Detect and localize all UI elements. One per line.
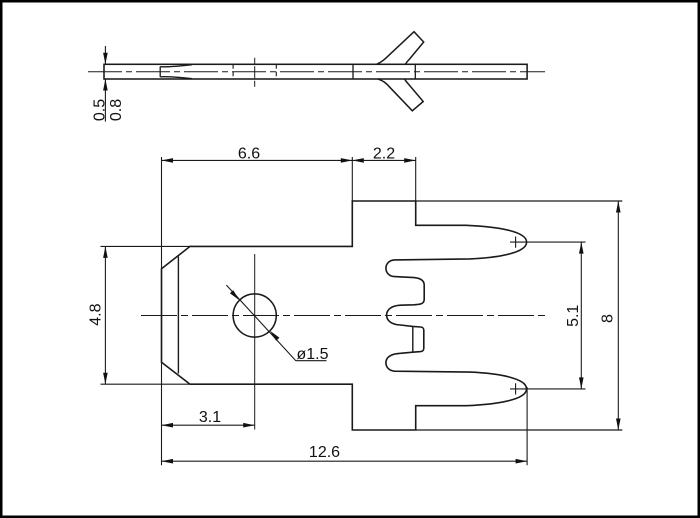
section division line B <box>414 64 416 79</box>
side view hole vertical centerline <box>254 58 256 87</box>
svg-text:ø1.5: ø1.5 <box>296 346 328 363</box>
svg-text:8: 8 <box>600 314 617 323</box>
6.6 arrows <box>162 158 174 163</box>
dimension 8 extension top <box>416 200 622 202</box>
tip coin detail vertical <box>159 67 161 78</box>
dimension 8 extension bottom <box>416 429 622 431</box>
8 arrows <box>616 201 621 213</box>
12.6 arrows <box>162 459 174 464</box>
diameter leader line <box>226 285 326 361</box>
dimension 4.8 line <box>104 246 106 384</box>
svg-text:0.8: 0.8 <box>108 99 125 121</box>
lower bent finger (side view) <box>378 79 423 111</box>
0.5/0.8 arrows <box>103 53 108 65</box>
dimension 5.1 extension bottom <box>521 388 586 390</box>
top finger tip cross <box>510 237 521 248</box>
left extension/edge vertical <box>161 157 163 465</box>
svg-text:3.1: 3.1 <box>199 409 221 426</box>
svg-text:4.8: 4.8 <box>88 303 105 325</box>
diameter leader arrows <box>230 290 241 302</box>
2.2 arrows <box>352 158 364 163</box>
section division line A <box>352 64 354 79</box>
dimension 12.6 line <box>162 460 528 462</box>
chamfer inner edge <box>177 257 179 374</box>
dimension 5.1 line <box>580 242 582 389</box>
tip coin taper lower <box>160 77 192 79</box>
hole circle <box>233 294 276 337</box>
svg-text:2.2: 2.2 <box>373 146 395 163</box>
terminal outline <box>162 201 527 430</box>
dimension 6.6 line <box>162 159 353 161</box>
plan horizontal centerline <box>141 315 546 317</box>
tip coin taper upper <box>160 65 192 67</box>
dimension 0.5/0.8 line lower segment <box>104 79 106 122</box>
dimension 4.8 extension top <box>101 245 194 247</box>
dimension 3.1 line <box>162 424 255 426</box>
upper bent finger (side view) <box>377 32 424 65</box>
side view strip body <box>104 64 527 79</box>
hole silhouette dashed right <box>275 64 277 79</box>
dimension 2.2 line <box>352 159 415 161</box>
extension line x=527.1 <box>526 387 528 465</box>
dimension 8 line <box>617 201 619 430</box>
extension line x=415.7 top <box>415 157 417 201</box>
dimension 4.8 extension bottom <box>101 383 194 385</box>
3.1 arrows <box>162 423 174 428</box>
hole silhouette dashed left <box>232 64 234 79</box>
hole vertical centerline / 3.1 extension <box>254 254 256 430</box>
svg-text:0.5: 0.5 <box>91 99 108 121</box>
4.8 arrows <box>103 246 108 258</box>
dimension 0.5/0.8 line upper segment <box>104 46 106 64</box>
5.1 arrows <box>579 242 584 254</box>
side view horizontal centerline <box>88 71 545 73</box>
bent finger tip-face inner edge <box>412 327 414 352</box>
extension line x=352.3 top <box>351 157 353 201</box>
dimension 5.1 extension top <box>521 241 586 243</box>
bottom finger tip cross <box>510 383 521 394</box>
svg-text:12.6: 12.6 <box>309 444 340 461</box>
svg-text:6.6: 6.6 <box>238 146 260 163</box>
svg-text:5.1: 5.1 <box>565 305 582 327</box>
